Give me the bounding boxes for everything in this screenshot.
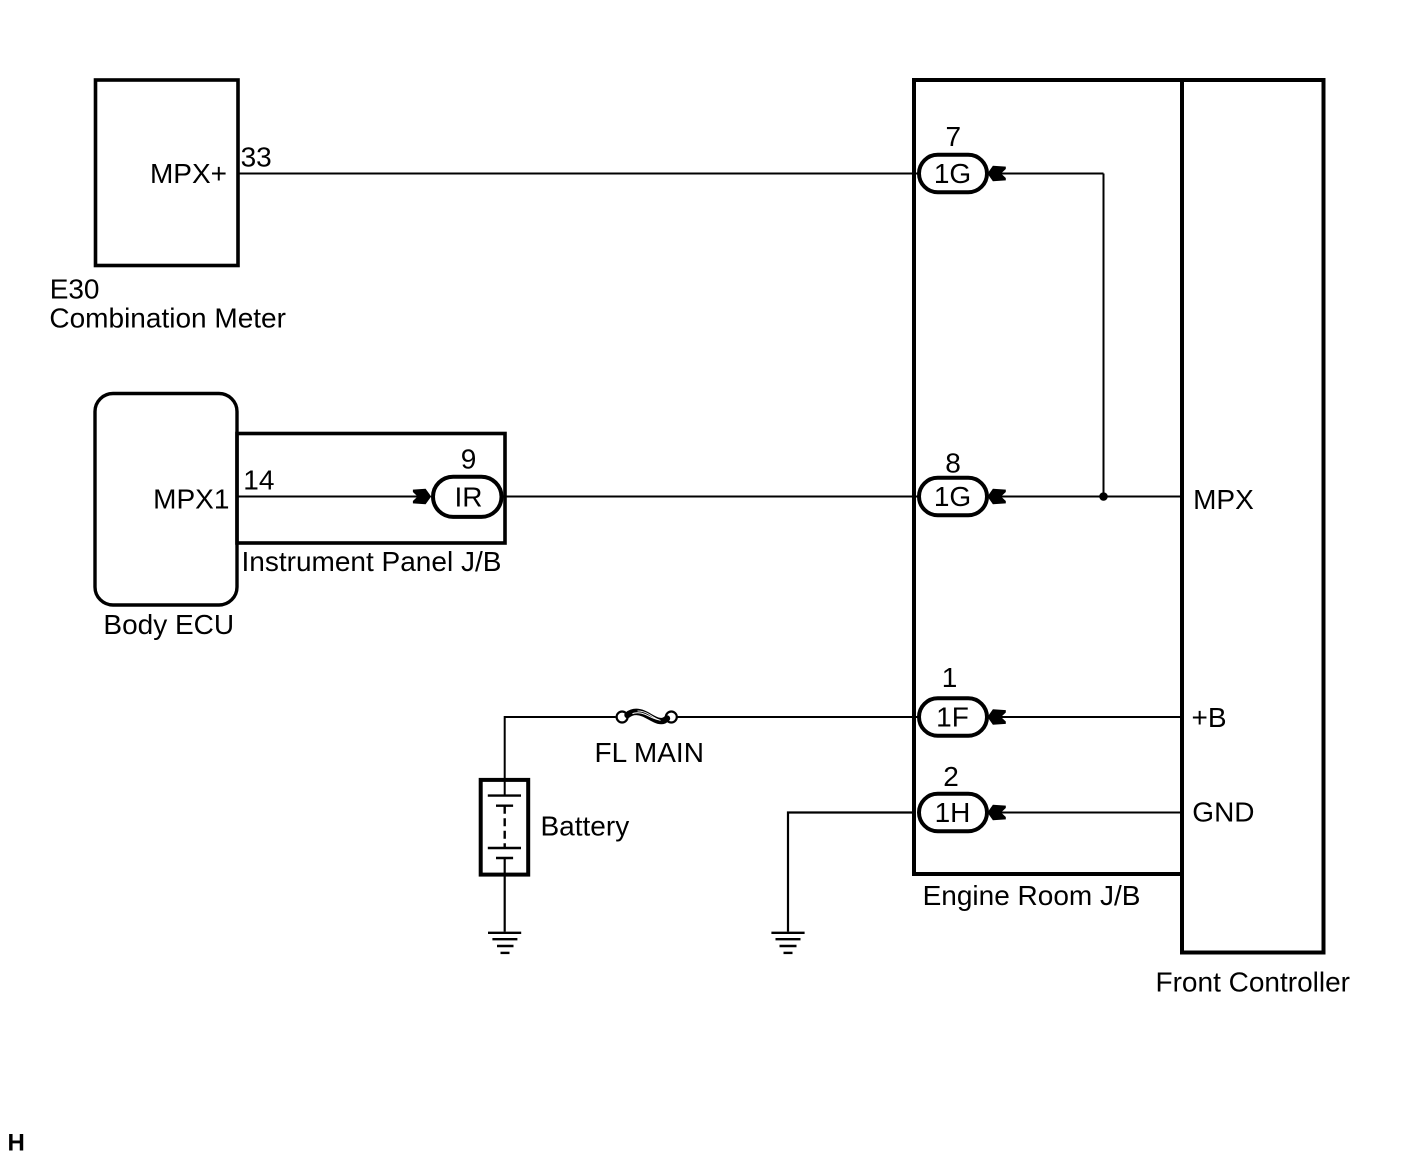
label E30: [50, 273, 100, 304]
svg-text:1G: 1G: [934, 158, 971, 189]
vertical link wire: [1103, 174, 1105, 497]
label Instrument Panel J/B: [242, 546, 502, 577]
wire battery positive to fusible link: [505, 717, 616, 796]
svg-text:Front Controller: Front Controller: [1156, 967, 1351, 998]
pin number 33: [241, 142, 272, 173]
pin number 8: [945, 448, 961, 479]
net label +B: [1192, 702, 1227, 733]
connector 1H pin 2: [919, 794, 987, 832]
svg-text:MPX+: MPX+: [150, 158, 227, 189]
connector 1G pin 7: [919, 155, 987, 193]
box Front Controller: [1182, 80, 1324, 953]
net label GND: [1192, 797, 1254, 828]
svg-text:MPX1: MPX1: [153, 484, 229, 515]
pin number 14: [243, 465, 274, 496]
svg-text:7: 7: [946, 121, 962, 152]
pin number 1: [942, 662, 958, 693]
svg-text:1G: 1G: [934, 481, 971, 512]
svg-text:FL MAIN: FL MAIN: [595, 737, 704, 768]
svg-text:1: 1: [942, 662, 958, 693]
pin number 2: [943, 761, 959, 792]
label Engine Room J/B: [923, 880, 1141, 911]
label Battery: [541, 811, 630, 842]
connector 1F pin 1: [919, 698, 987, 736]
wire GND from Front Controller: [1001, 812, 1182, 814]
svg-text:MPX: MPX: [1193, 484, 1254, 515]
label Body ECU: [103, 609, 234, 640]
pin label MPX+: [150, 158, 227, 189]
svg-text:Engine Room J/B: Engine Room J/B: [923, 880, 1141, 911]
wire from 1G7 arrow to vertical link: [1001, 173, 1104, 175]
arrow into 1F: [987, 709, 1005, 724]
box Body ECU: [95, 394, 237, 606]
wire fusible link to 1F: [678, 716, 919, 718]
page index H: [8, 1130, 25, 1157]
label Combination Meter: [49, 302, 286, 333]
wire MPX from Front Controller: [1001, 496, 1182, 498]
arrow into 1G pin 8: [987, 489, 1005, 504]
svg-text:14: 14: [243, 465, 274, 496]
connector 1G pin 8: [919, 478, 987, 516]
junction node: [1099, 492, 1108, 501]
wire 1H to chassis ground: [788, 813, 916, 932]
svg-text:33: 33: [241, 142, 272, 173]
svg-text:E30: E30: [50, 273, 100, 304]
svg-text:Combination Meter: Combination Meter: [49, 302, 286, 333]
svg-text:GND: GND: [1192, 797, 1254, 828]
wire MPX1 pin 14 to IR arrow: [238, 496, 418, 498]
arrow into 1H: [987, 805, 1005, 820]
svg-text:Instrument Panel J/B: Instrument Panel J/B: [242, 546, 502, 577]
wire battery negative to ground: [504, 858, 506, 932]
pin number 9: [461, 443, 477, 474]
svg-text:1H: 1H: [935, 797, 971, 828]
label Front Controller: [1156, 967, 1351, 998]
ground (1H): [771, 933, 804, 953]
box E30 Combination Meter: [96, 80, 239, 266]
wire MPX+ 33 to connector 1G pin 7: [239, 173, 918, 175]
svg-text:9: 9: [461, 443, 477, 474]
svg-text:1F: 1F: [936, 702, 969, 733]
svg-text:H: H: [8, 1130, 25, 1157]
ground (battery): [488, 933, 521, 953]
label FL MAIN: [595, 737, 704, 768]
svg-text:Battery: Battery: [541, 811, 630, 842]
svg-text:IR: IR: [455, 482, 483, 513]
svg-text:Body ECU: Body ECU: [103, 609, 234, 640]
net label MPX: [1193, 484, 1254, 515]
svg-text:2: 2: [943, 761, 959, 792]
connector IR: [433, 477, 502, 517]
box Instrument Panel J/B: [237, 434, 505, 544]
arrow into IR: [413, 489, 431, 504]
arrow into 1G pin 7: [987, 166, 1005, 181]
pin label MPX1: [153, 484, 229, 515]
wire IR to connector 1G pin 8: [500, 496, 918, 498]
box Engine Room J/B: [914, 80, 1182, 874]
svg-text:+B: +B: [1192, 702, 1227, 733]
battery: [481, 780, 529, 875]
pin number 7: [946, 121, 962, 152]
fusible link FL MAIN: [617, 711, 677, 723]
wire +B from Front Controller: [1001, 716, 1182, 718]
svg-text:8: 8: [945, 448, 961, 479]
